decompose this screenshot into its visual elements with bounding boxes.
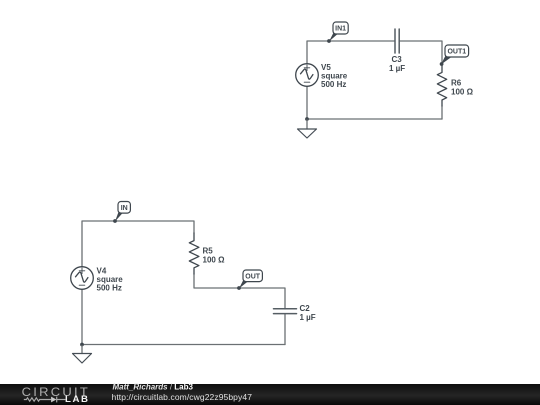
wire left lower (V5 minus to bottom rail) <box>306 86 308 119</box>
C3 value label <box>389 55 405 73</box>
svg-text:500 Hz: 500 Hz <box>321 80 346 89</box>
junction dot (bottom circuit ground node) <box>80 343 84 347</box>
svg-text:100 Ω: 100 Ω <box>203 256 226 265</box>
C2 value label <box>300 304 316 322</box>
svg-text:500 Hz: 500 Hz <box>97 284 122 293</box>
wire C2 bottom to bottom rail <box>284 314 286 345</box>
V4 value label <box>97 267 124 293</box>
flag IN1 <box>329 22 348 42</box>
flag OUT <box>239 270 262 289</box>
svg-text:100 Ω: 100 Ω <box>451 88 474 97</box>
wire left lower (V4 minus to bottom rail) <box>81 289 83 345</box>
svg-text:http://circuitlab.com/cwg22z95: http://circuitlab.com/cwg22z95bpy47 <box>112 392 253 402</box>
flag IN <box>115 202 130 222</box>
R5 value label <box>203 247 226 265</box>
node dot OUT <box>237 286 241 290</box>
capacitor C3 <box>395 29 399 53</box>
svg-text:C3: C3 <box>392 55 403 64</box>
wire top rail (IN net) <box>82 221 194 267</box>
node dot OUT1 <box>440 62 444 66</box>
svg-text:1 µF: 1 µF <box>300 313 316 322</box>
svg-text:OUT: OUT <box>245 273 261 280</box>
wire right lower (R6 bottom to bottom rail) <box>441 106 443 119</box>
svg-text:IN1: IN1 <box>335 26 346 33</box>
resistor R6 <box>437 64 446 106</box>
wire OUT node to C2 top <box>239 288 285 309</box>
wire top-left (IN1 net, node to C3 left plate) <box>307 41 395 64</box>
V5 value label <box>321 63 348 89</box>
voltage source V5 <box>296 64 319 87</box>
R6 value label <box>451 79 474 97</box>
logo diode triangle <box>51 397 56 403</box>
svg-text:Matt_Richards / Lab3: Matt_Richards / Lab3 <box>113 382 194 391</box>
logo schematic line (resistor + diode) <box>24 397 66 403</box>
ground (top circuit) <box>298 120 317 138</box>
svg-text:C2: C2 <box>300 304 311 313</box>
flag OUT1 <box>441 45 469 65</box>
junction dot (top circuit ground node) <box>305 117 309 121</box>
svg-text:R5: R5 <box>203 247 214 256</box>
svg-text:R6: R6 <box>451 79 462 88</box>
svg-text:1 µF: 1 µF <box>389 64 405 73</box>
svg-text:IN: IN <box>121 205 128 212</box>
resistor R5 <box>189 233 199 274</box>
wire top-right (C3 right plate to R6 top) <box>400 41 442 64</box>
ground (bottom circuit) <box>73 346 92 364</box>
svg-text:LAB: LAB <box>65 394 90 404</box>
node dot IN <box>113 219 117 223</box>
wire R5 bottom to OUT corner <box>194 274 239 288</box>
wire bottom rail (bottom circuit) <box>82 344 285 346</box>
voltage source V4 <box>71 267 94 290</box>
wire bottom rail (top circuit) <box>307 118 442 120</box>
svg-text:OUT1: OUT1 <box>447 49 466 56</box>
node dot IN1 <box>327 39 331 43</box>
capacitor C2 <box>274 309 297 314</box>
footer background <box>0 384 540 405</box>
